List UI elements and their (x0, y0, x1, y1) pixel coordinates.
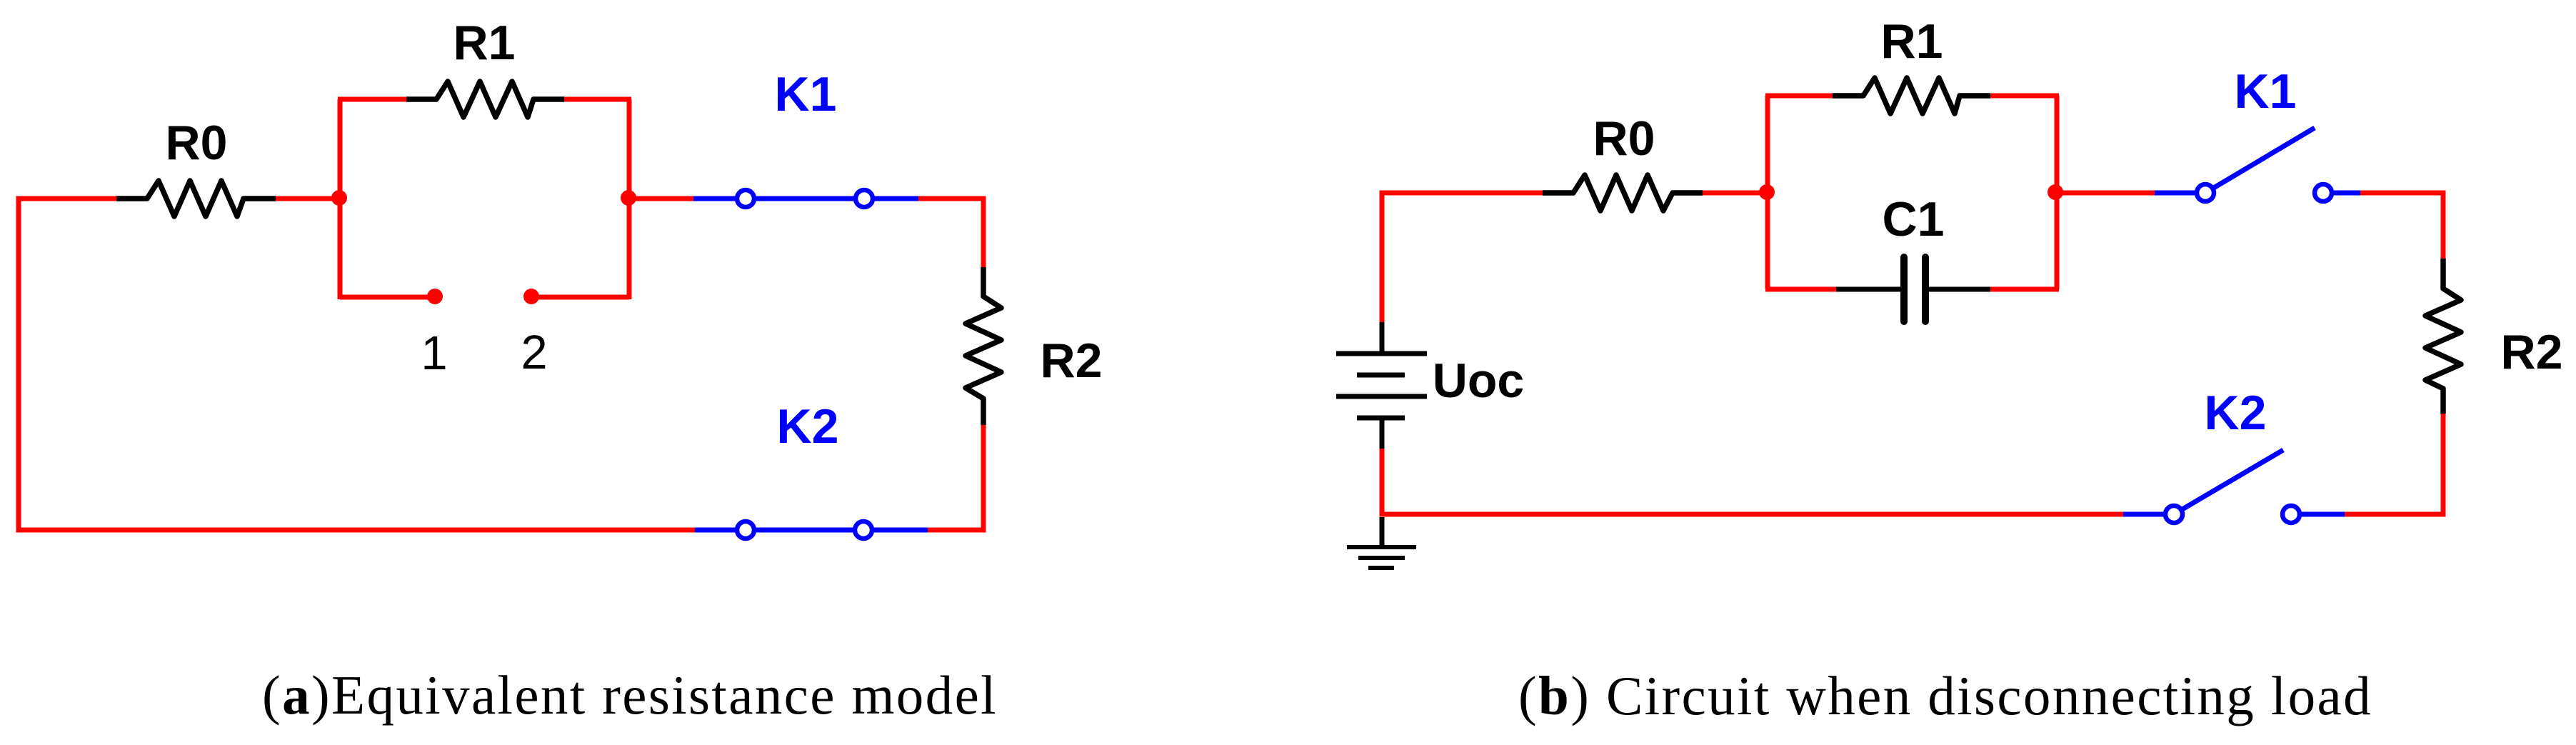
switch K1 (b) terminal circle left (2197, 184, 2214, 201)
wire parallel-branch left vertical (a) (338, 99, 343, 299)
wire lower stub left (a) (340, 295, 435, 300)
wire K1 to R2 top (a) (918, 199, 983, 267)
ground pin (1380, 517, 1385, 545)
wire R0 to left junction (a) (276, 196, 340, 201)
battery Uoc plate 2 short (1357, 373, 1405, 378)
switch K1 (a) terminal circle left (737, 190, 754, 207)
resistor R0 (116, 181, 276, 216)
svg-text:C1: C1 (1883, 192, 1945, 246)
terminal dot node 1 (427, 289, 443, 304)
capacitor C1 right wire (1929, 287, 1990, 292)
switch K2 (b) open arm (2181, 450, 2283, 510)
wire RC-box left vertical (b) (1765, 96, 1770, 289)
svg-text:R0: R0 (1593, 111, 1655, 166)
svg-text:1: 1 (421, 326, 447, 380)
ground bar 1 (1347, 545, 1416, 549)
battery Uoc plate 3 long (1336, 394, 1427, 399)
node dot right junction (a) (621, 190, 636, 206)
ground bar 2 (1358, 556, 1405, 560)
wire K1 to R2 top (b) (2360, 193, 2443, 259)
svg-text:K2: K2 (2205, 386, 2267, 440)
resistor R2 (a) (966, 267, 1001, 425)
wire top branch left lead (a) (338, 97, 406, 102)
switch K2 (b) blue lead right (2291, 512, 2345, 517)
switch K2 (a) closed blue wire (695, 528, 928, 533)
svg-text:(a)Equivalent resistance model: (a)Equivalent resistance model (262, 664, 998, 726)
wire battery bottom to K2 run (b) (1382, 449, 2123, 514)
wire top branch right lead (a) (564, 97, 631, 102)
switch K2 (b) terminal circle right (2282, 506, 2300, 523)
capacitor C1 plate left (1900, 257, 1908, 321)
svg-text:R2: R2 (1041, 334, 1103, 388)
svg-text:2: 2 (521, 326, 547, 379)
wire lower stub right (a) (531, 295, 629, 300)
wire RC-box right vertical (b) (2055, 96, 2060, 289)
svg-text:(b) Circuit when disconnecting: (b) Circuit when disconnecting load (1518, 665, 2372, 726)
wire RC-box top branch right lead (b) (1990, 94, 2059, 99)
switch K1 (a) closed blue wire (693, 196, 918, 201)
svg-text:K1: K1 (2235, 64, 2297, 119)
switch K2 (b) terminal circle left (2165, 506, 2182, 523)
switch K1 (b) open arm (2212, 128, 2315, 189)
battery Uoc top pin (1380, 322, 1385, 351)
switch K2 (a) terminal circle left (737, 521, 754, 539)
wire RC-box bottom branch right lead (b) (1990, 287, 2059, 292)
svg-text:K2: K2 (777, 399, 839, 454)
resistor R1 (b) (1833, 78, 1990, 114)
wire R0 to left junction (b) (1703, 191, 1768, 196)
svg-text:R0: R0 (166, 116, 228, 170)
switch K2 (a) terminal circle right (855, 521, 872, 539)
wire right junction to K1 (b) (2057, 191, 2155, 196)
wire parallel-branch right vertical (a) (627, 99, 632, 299)
svg-text:R2: R2 (2501, 325, 2563, 379)
wire RC-box top branch left lead (b) (1765, 94, 1833, 99)
wire battery top to R0 (b) (1382, 193, 1543, 322)
resistor R0 (b) (1543, 175, 1703, 211)
resistor R1 (406, 81, 564, 117)
battery Uoc bottom pin (1380, 420, 1385, 449)
switch K2 (b) blue lead left (2123, 512, 2174, 517)
svg-text:Uoc: Uoc (1433, 354, 1524, 408)
capacitor C1 left wire (1836, 287, 1900, 292)
switch K1 (a) terminal circle right (856, 190, 873, 207)
switch K1 (b) blue lead left (2155, 191, 2205, 196)
svg-text:K1: K1 (775, 67, 837, 121)
switch K1 (b) terminal circle right (2315, 184, 2332, 201)
resistor R2 (b) (2425, 259, 2461, 414)
node dot right junction (b) (2048, 184, 2063, 200)
svg-text:R1: R1 (453, 16, 516, 70)
wire R2 bottom to K2 (a) (928, 425, 983, 530)
wire R2 bottom to K2 (b) (2345, 414, 2443, 514)
battery Uoc plate 4 short (1357, 416, 1405, 421)
switch K1 (b) blue lead right (2323, 191, 2360, 196)
node dot left junction (b) (1759, 184, 1775, 200)
capacitor C1 plate right (1922, 257, 1929, 321)
node dot left junction (a) (331, 190, 347, 206)
wire left loop (a): top-left corner, left side, bottom run (19, 199, 695, 530)
battery Uoc plate 1 long (1336, 351, 1427, 356)
wire RC-box bottom branch left lead (b) (1765, 287, 1836, 292)
ground bar 3 (1368, 566, 1394, 570)
terminal dot node 2 (523, 289, 539, 304)
wire right junction to K1 (a) (629, 196, 693, 201)
svg-text:R1: R1 (1881, 14, 1943, 69)
